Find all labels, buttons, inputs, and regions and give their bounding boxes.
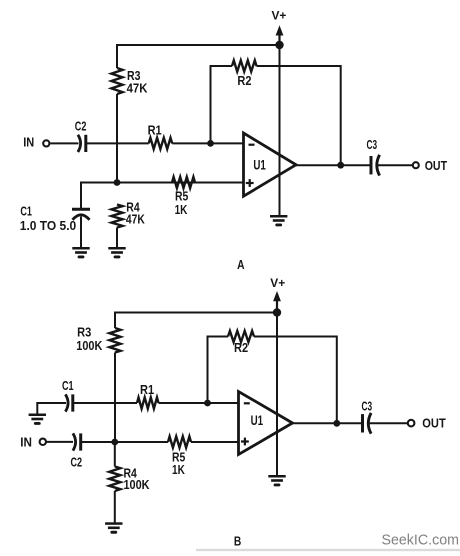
svg-text:C1: C1 bbox=[62, 380, 74, 394]
wire input node A horizontal bbox=[81, 182, 244, 209]
capacitor C3 (B) bbox=[362, 400, 373, 434]
svg-text:OUT: OUT bbox=[425, 158, 448, 173]
wire R5 to op-amp noninverting input B bbox=[191, 441, 240, 443]
svg-text:U1: U1 bbox=[251, 414, 264, 429]
svg-text:R5: R5 bbox=[175, 189, 189, 203]
op-amp U1 (A) bbox=[244, 133, 297, 196]
terminal IN (B) bbox=[20, 435, 46, 450]
capacitor C3 (A) bbox=[367, 138, 380, 176]
resistor R3 (A) 47K bbox=[111, 68, 147, 96]
svg-text:R2: R2 bbox=[237, 73, 251, 88]
terminal IN (A) bbox=[23, 134, 49, 149]
svg-text:U1: U1 bbox=[253, 158, 266, 173]
power V+ (circuit A) bbox=[271, 10, 286, 45]
resistor R1 (B) bbox=[137, 382, 159, 408]
svg-text:V+: V+ bbox=[270, 277, 285, 290]
resistor R4 (A) 47K bbox=[111, 199, 145, 227]
capacitor C2 (A) bbox=[75, 120, 87, 152]
svg-text:1K: 1K bbox=[172, 463, 185, 478]
ground below op-amp B bbox=[268, 475, 285, 486]
ground below C1 (A) bbox=[72, 247, 89, 258]
wire R1 to op-amp inverting input B bbox=[159, 402, 240, 404]
svg-text:B: B bbox=[234, 534, 241, 548]
svg-text:1K: 1K bbox=[175, 203, 188, 218]
resistor R2 (B) feedback bbox=[207, 331, 337, 423]
resistor R4 (B) 100K bbox=[109, 442, 150, 492]
wire V+ vertical through op-amp A to ground bbox=[279, 45, 281, 216]
op-amp U1 (B) bbox=[239, 392, 293, 455]
resistor R5 (B) 1K bbox=[168, 436, 191, 477]
label A bbox=[237, 258, 245, 272]
svg-text:SeekIC.com: SeekIC.com bbox=[382, 532, 459, 548]
wire C1 to R1 (B) bbox=[73, 402, 137, 404]
svg-text:100K: 100K bbox=[76, 338, 102, 353]
wire V+ vertical through op-amp B to ground bbox=[276, 313, 278, 476]
wire IN to C2 (B) bbox=[47, 441, 73, 443]
capacitor C1 (A) 1.0 TO 5.0 bbox=[20, 205, 90, 247]
node V+ junction A bbox=[275, 41, 283, 49]
svg-text:IN: IN bbox=[20, 435, 32, 450]
resistor R1 (A) bbox=[148, 122, 173, 149]
svg-text:C3: C3 bbox=[362, 400, 373, 414]
svg-text:R2: R2 bbox=[234, 340, 248, 355]
ground for C1 (B) bbox=[29, 403, 46, 425]
wire op-amp B output to C3 bbox=[293, 422, 362, 424]
wire C2 to R1 (A) bbox=[86, 142, 149, 144]
wire C3 to OUT (A) bbox=[378, 164, 412, 166]
svg-text:C2: C2 bbox=[75, 120, 87, 134]
wire R1 to op-amp inverting input A bbox=[172, 142, 243, 144]
resistor R3 (B) 100K bbox=[76, 325, 120, 354]
svg-text:C3: C3 bbox=[367, 138, 378, 152]
svg-text:100K: 100K bbox=[124, 477, 150, 492]
svg-text:1.0 TO 5.0: 1.0 TO 5.0 bbox=[20, 218, 76, 233]
ground below R4 (B) bbox=[105, 522, 122, 533]
wire top rail A: R3 top to V+ node bbox=[117, 44, 279, 68]
terminal OUT (A) bbox=[413, 158, 448, 173]
capacitor C2 (B) bbox=[71, 433, 83, 469]
svg-text:A: A bbox=[237, 258, 245, 272]
wire ground to C1 (B) bbox=[36, 402, 66, 404]
svg-text:47K: 47K bbox=[126, 212, 145, 226]
ground below op-amp A bbox=[270, 215, 287, 226]
node junction A (R3/R4/C1) bbox=[114, 179, 121, 186]
wire top rail B: R3 top to V+ node bbox=[115, 312, 277, 329]
wire C2 to node B bbox=[81, 441, 168, 443]
label B bbox=[234, 534, 241, 548]
node output junction B bbox=[333, 420, 340, 427]
bottom scan band bbox=[196, 549, 460, 551]
wire C3 to OUT (B) bbox=[369, 422, 408, 424]
node junction R1/R2 inverting input A bbox=[207, 140, 214, 147]
terminal OUT (B) bbox=[408, 416, 446, 431]
svg-text:IN: IN bbox=[23, 134, 34, 149]
svg-text:C2: C2 bbox=[71, 456, 83, 470]
wire R3 bottom to input node A bbox=[116, 94, 118, 183]
wire R4 to ground A bbox=[116, 228, 118, 248]
wire op-amp A output to C3 bbox=[296, 164, 370, 166]
svg-text:R1: R1 bbox=[148, 122, 162, 137]
svg-text:47K: 47K bbox=[127, 81, 148, 96]
svg-text:R1: R1 bbox=[140, 382, 154, 397]
power V+ (circuit B) bbox=[270, 277, 285, 313]
svg-text:OUT: OUT bbox=[422, 416, 446, 431]
svg-text:V+: V+ bbox=[271, 10, 286, 23]
ground below R4 (A) bbox=[108, 247, 125, 258]
wire R4 to ground B bbox=[114, 491, 116, 523]
wire IN to C2 (A) bbox=[50, 142, 78, 144]
resistor R2 (A) feedback bbox=[210, 60, 341, 165]
node output junction A bbox=[337, 162, 344, 169]
watermark SeekIC.com bbox=[382, 532, 459, 548]
node junction B (IN/R3/R4) bbox=[111, 439, 118, 446]
capacitor C1 (B) bbox=[62, 380, 74, 412]
svg-text:C1: C1 bbox=[20, 205, 32, 219]
wire R3 bottom to IN node B bbox=[114, 353, 116, 443]
resistor R5 (A) 1K bbox=[172, 177, 195, 217]
node junction R1/R2 inverting input B bbox=[204, 400, 211, 407]
node V+ junction B bbox=[273, 308, 281, 316]
